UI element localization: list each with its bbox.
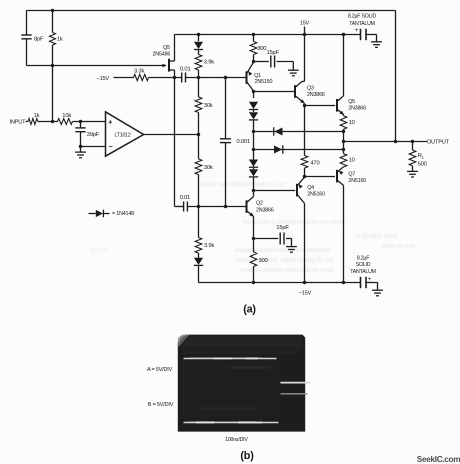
wire Q7 base — [305, 176, 336, 178]
wire Q3 collector to rail — [304, 35, 306, 82]
diode D1 top 1N4148 — [198, 35, 200, 42]
wire Q2 emitter down — [253, 216, 255, 238]
svg-text:width at true: width at true — [381, 244, 415, 250]
transistor Q5 2N5486 JFET — [163, 65, 166, 67]
svg-text:TANTALUM: TANTALUM — [349, 21, 375, 27]
node below 39pF — [79, 145, 82, 148]
svg-text:= 1N4148: = 1N4148 — [112, 211, 134, 217]
node JFET source junction — [173, 76, 176, 79]
svg-text:470: 470 — [310, 161, 319, 167]
svg-text:10: 10 — [349, 158, 355, 164]
svg-text:(b): (b) — [240, 450, 254, 462]
capacitor 15pF lower — [254, 238, 279, 240]
capacitor 0.001 — [225, 78, 227, 139]
svg-text:2N5150: 2N5150 — [255, 79, 273, 85]
svg-text:0.001: 0.001 — [237, 139, 251, 145]
capacitor 0.01 upper — [181, 73, 183, 83]
node feedback takeoff — [394, 140, 397, 143]
wire summing node vertical — [52, 66, 54, 122]
svg-text:30k: 30k — [204, 103, 213, 109]
wire -15V to 3.3k — [114, 77, 134, 79]
wire Q3 emitter down to 470 — [304, 106, 306, 156]
diode D3 1N4148 — [253, 110, 255, 113]
node op-amp + input junction — [79, 120, 82, 123]
resistor 300 lower — [253, 239, 255, 253]
node Q3 emitter junction — [304, 104, 306, 106]
wire input to node — [38, 121, 58, 123]
svg-text:the in turn a parallel most be: the in turn a parallel most be but mode — [243, 220, 346, 226]
node feedback top-left junction — [51, 9, 54, 12]
wire op-amp output — [144, 134, 199, 136]
wire 3.3k to 0.01 — [149, 77, 182, 79]
diode D5 1N4148 — [253, 167, 255, 169]
svg-text:Q3: Q3 — [307, 85, 314, 91]
svg-text:15V: 15V — [300, 21, 310, 27]
wire +15V rail — [175, 34, 361, 36]
scope trace B — [184, 422, 279, 424]
transistor Q5 2N3866 output — [336, 99, 338, 112]
svg-text:0.01: 0.01 — [180, 195, 190, 201]
resistor 10k input — [58, 119, 73, 125]
capacitor 0.01 lower — [175, 206, 184, 208]
svg-text:30k: 30k — [204, 165, 213, 171]
svg-text:1k: 1k — [34, 113, 40, 119]
wire Q3 emitter to Q5 base — [305, 105, 336, 107]
node RL junction — [411, 140, 414, 143]
svg-text:OUTPUT: OUTPUT — [427, 139, 450, 145]
node rail junction 3.9k diode — [197, 33, 200, 36]
svg-text:10k: 10k — [62, 113, 71, 119]
svg-text:TANTALUM: TANTALUM — [350, 269, 376, 275]
scope trace step right upper — [281, 382, 311, 384]
oscilloscope photograph — [178, 335, 305, 432]
wire feedback bottom / JFET gate wire — [27, 65, 163, 67]
svg-text:2N3866: 2N3866 — [348, 106, 366, 112]
capacitor 15pF upper — [254, 61, 269, 63]
wire Q4 collector down to rail — [304, 203, 306, 282]
diode D6 bottom left 1N4148 — [198, 253, 200, 258]
wire to op-amp - input — [81, 146, 106, 148]
svg-text:2N5486: 2N5486 — [153, 52, 171, 58]
svg-text:3.9k: 3.9k — [204, 243, 214, 249]
svg-text:and all: and all — [90, 248, 108, 254]
node Q2 emitter / 15pF junction — [252, 237, 255, 240]
svg-text:−15V: −15V — [97, 76, 110, 82]
svg-text:10: 10 — [349, 120, 355, 126]
ground upper 15pF — [288, 69, 299, 71]
node input junction — [51, 120, 54, 123]
svg-text:8.2µF: 8.2µF — [357, 255, 369, 261]
wire upper clamp to output stage — [254, 131, 344, 133]
svg-text:LT1012: LT1012 — [115, 132, 131, 138]
svg-text:15pF: 15pF — [276, 225, 289, 231]
ground bottom tantalum — [372, 289, 383, 291]
wire output — [344, 141, 428, 143]
svg-text:8.2µF SOLID: 8.2µF SOLID — [348, 14, 377, 20]
ground RL — [407, 170, 418, 172]
node Q1 collector / Q3 base junction — [253, 91, 255, 98]
node op-amp output / 30k junction — [197, 133, 200, 136]
diode D7 1N4148 points left — [274, 128, 282, 136]
svg-text:INPUT: INPUT — [10, 120, 27, 126]
ground top tantalum — [371, 41, 382, 43]
resistor 3.3k — [134, 74, 149, 80]
resistor 30k upper — [198, 78, 200, 98]
resistor 1k feedback — [52, 11, 54, 33]
wire feedback right vertical to output node — [395, 11, 397, 142]
ground lower 15pF — [286, 246, 297, 248]
svg-text:available device swing are amp: available device swing are amplified — [234, 248, 330, 254]
node 470 bottom junction — [303, 175, 306, 178]
wire input — [26, 121, 29, 123]
node rail junction Q3 — [303, 33, 306, 36]
svg-text:300: 300 — [257, 46, 266, 52]
transistor Q2 2N3866 — [246, 200, 248, 213]
resistor 470 — [301, 156, 308, 169]
capacitor 8pF feedback — [26, 11, 28, 36]
resistor 10 upper — [343, 115, 345, 116]
wire lower 0.01 to Q2 base — [187, 206, 245, 208]
wire to Q2 collector — [253, 191, 255, 197]
diode D8 1N4148 points right — [274, 146, 282, 154]
svg-text:(a): (a) — [243, 304, 256, 316]
svg-text:300: 300 — [259, 258, 268, 264]
node Q1 emitter junction — [252, 60, 255, 63]
node rail Q2 emitter — [252, 281, 255, 284]
svg-text:0.01: 0.01 — [180, 67, 190, 73]
svg-text:B = 5V/DIV: B = 5V/DIV — [148, 402, 174, 408]
wire Q4 base — [254, 190, 296, 192]
node rail junction 300 — [252, 33, 255, 36]
resistor 1k input — [28, 119, 38, 125]
svg-text:+: + — [355, 27, 359, 34]
transistor Q1 2N5150 — [246, 71, 248, 84]
transistor Q3 2N3866 — [294, 85, 296, 98]
svg-text:100ns/DIV: 100ns/DIV — [225, 437, 248, 443]
wire -15V bottom rail — [199, 282, 361, 284]
svg-text:Q5: Q5 — [348, 99, 355, 105]
resistor 3.9k upper — [195, 55, 202, 71]
legend diode = 1N4148 — [89, 213, 96, 215]
svg-text:2N3866: 2N3866 — [307, 92, 325, 98]
svg-text:Q2: Q2 — [256, 201, 263, 207]
svg-text:mount side and identical DC ou: mount side and identical DC out — [200, 182, 285, 188]
svg-text:−15V: −15V — [299, 291, 312, 297]
svg-text:500: 500 — [418, 161, 427, 167]
label 15V supply — [304, 27, 306, 35]
node 3.9k/30k junction — [197, 76, 200, 79]
svg-text:3.3k: 3.3k — [134, 69, 144, 75]
wire Q3 base — [254, 91, 295, 93]
svg-text:Q4: Q4 — [307, 185, 314, 191]
svg-text:A = 5V/DIV: A = 5V/DIV — [147, 367, 173, 373]
resistor 10 lower — [343, 150, 345, 154]
wire to op-amp + input — [73, 121, 106, 123]
svg-text:2N5160: 2N5160 — [307, 192, 325, 198]
svg-text:1k: 1k — [57, 37, 63, 43]
node diode wire upper junction — [252, 130, 255, 133]
svg-text:−: − — [109, 144, 113, 151]
diode D4 1N4148 — [253, 150, 255, 160]
svg-text:+: + — [108, 120, 112, 127]
node output junction — [342, 140, 345, 143]
wire Q7 collector down to rail — [343, 185, 345, 282]
node rail junction Q5 collector — [342, 33, 345, 36]
ground op-amp input — [80, 147, 82, 153]
node lower 0.001 junction — [224, 205, 227, 208]
transistor Q4 2N5160 — [296, 184, 298, 197]
svg-text:RL: RL — [418, 153, 425, 159]
wire between diode junctions — [253, 132, 255, 150]
resistor 3.9k lower — [198, 207, 200, 238]
node rail Q7 collector — [342, 281, 345, 284]
svg-text:of 90-MHz band: of 90-MHz band — [355, 234, 398, 240]
svg-text:Q1: Q1 — [254, 73, 261, 79]
wire 10 to output node — [343, 132, 345, 150]
node lower clamp at output column — [342, 148, 345, 151]
wire feedback top rail (output to input network) — [27, 10, 396, 12]
capacitor 39pF — [80, 122, 82, 128]
resistor 300 upper — [253, 35, 255, 42]
resistor RL 500 load — [412, 142, 414, 151]
node rail Q4 collector — [303, 281, 306, 284]
transistor Q7 2N5160 — [336, 170, 338, 183]
svg-text:2N5160: 2N5160 — [348, 178, 366, 184]
op-amp U1 LT1012 — [106, 112, 144, 156]
wire Q5 collector to rail — [343, 35, 345, 96]
node upper clamp at output column — [342, 130, 345, 133]
svg-text:SeekIC.com: SeekIC.com — [417, 455, 460, 464]
svg-text:driving the level. Milled acti: driving the level. Milled acting for the — [236, 258, 334, 264]
node Q4 base junction — [252, 189, 255, 192]
svg-text:39pF: 39pF — [87, 132, 100, 138]
node lower 30k junction — [197, 205, 200, 208]
svg-text:15pF: 15pF — [267, 50, 280, 56]
svg-text:8pF: 8pF — [34, 37, 44, 43]
node 0.001 top junction — [224, 76, 227, 79]
wire 0.01 to Q1 base — [186, 77, 247, 79]
wire lower clamp to output stage — [254, 149, 344, 151]
svg-text:2N3866: 2N3866 — [256, 208, 274, 214]
node feedback bottom junction — [51, 64, 54, 67]
diode D2 1N4148 — [249, 102, 258, 109]
svg-text:Q7: Q7 — [348, 171, 355, 177]
scope trace step right lower — [281, 393, 308, 395]
svg-text:Q5: Q5 — [163, 45, 170, 51]
svg-text:SOLID: SOLID — [356, 262, 371, 268]
scope trace A — [184, 358, 277, 360]
svg-text:3.9k: 3.9k — [204, 60, 214, 66]
resistor 30k lower — [198, 135, 200, 160]
node diode wire lower junction — [252, 148, 255, 151]
wire x174 vertical to lower 0.01 — [174, 78, 176, 207]
